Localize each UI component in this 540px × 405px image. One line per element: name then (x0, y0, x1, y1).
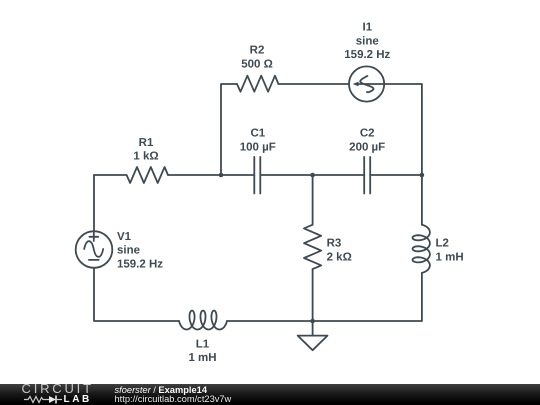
resistor R1 (127, 167, 168, 183)
svg-text:sine: sine (117, 245, 140, 257)
svg-text:200 µF: 200 µF (349, 141, 385, 153)
wire: mid row left segment (94, 174, 126, 176)
wire: mid row R1 to C1 (168, 174, 254, 176)
logo wordmark CIRCUIT (22, 382, 94, 395)
footer credit text (115, 385, 208, 395)
node: ground junction (310, 319, 315, 324)
node: R2 branch / mid row junction (219, 173, 224, 178)
node: C2/I1/L2 junction (420, 173, 425, 178)
wire: R3 to bottom row (312, 269, 314, 321)
inductor L2 (413, 225, 430, 273)
svg-text:R3: R3 (327, 238, 342, 250)
wire: V1 bottom lead to bottom row (94, 268, 179, 321)
svg-text:1 mH: 1 mH (188, 352, 216, 364)
current source I1 (349, 66, 384, 101)
svg-text:C2: C2 (360, 128, 375, 140)
svg-text:1 kΩ: 1 kΩ (133, 151, 158, 163)
svg-text:V1: V1 (117, 231, 132, 243)
svg-text:R2: R2 (250, 45, 265, 57)
footer url text (115, 394, 232, 404)
wire: right column mid to L2 (421, 175, 423, 225)
resistor R3 (304, 225, 321, 269)
capacitor C1 (254, 157, 260, 194)
svg-text:159.2 Hz: 159.2 Hz (117, 258, 163, 270)
svg-text:L1: L1 (196, 338, 210, 350)
logo resistor glyph (24, 396, 49, 402)
svg-text:100 µF: 100 µF (240, 141, 276, 153)
wire: L2 to bottom row (421, 273, 423, 321)
node: C1/C2/R3 junction (310, 173, 315, 178)
ground (298, 321, 328, 350)
wire: mid row C2 to right column (370, 174, 422, 176)
inductor L1 (179, 311, 227, 330)
svg-text:I1: I1 (363, 22, 373, 34)
wire: I1 to right column, down to mid row (384, 84, 422, 175)
I1 arrowhead (353, 82, 359, 87)
svg-text:R1: R1 (139, 137, 154, 149)
svg-text:C1: C1 (250, 128, 265, 140)
svg-text:159.2 Hz: 159.2 Hz (344, 49, 390, 61)
wire: mid row C1 to C2 (260, 174, 364, 176)
resistor R2 (237, 76, 278, 92)
svg-text:sine: sine (356, 35, 379, 47)
wire: R2 to I1 (278, 83, 349, 85)
svg-text:L2: L2 (436, 238, 449, 250)
voltage source V1 (76, 231, 113, 268)
svg-text:500 Ω: 500 Ω (241, 58, 273, 70)
svg-text:1 mH: 1 mH (436, 251, 464, 263)
svg-text:2 kΩ: 2 kΩ (327, 251, 352, 263)
wire: node B down to R3 (312, 175, 314, 225)
wire: left branch up to R2 row (221, 84, 237, 175)
logo wordmark LAB (64, 395, 92, 405)
wire: bottom row L1 to right column (227, 320, 422, 322)
wire: left column, V1 top lead (93, 175, 95, 231)
logo diode glyph (49, 396, 56, 403)
capacitor C2 (364, 157, 370, 194)
